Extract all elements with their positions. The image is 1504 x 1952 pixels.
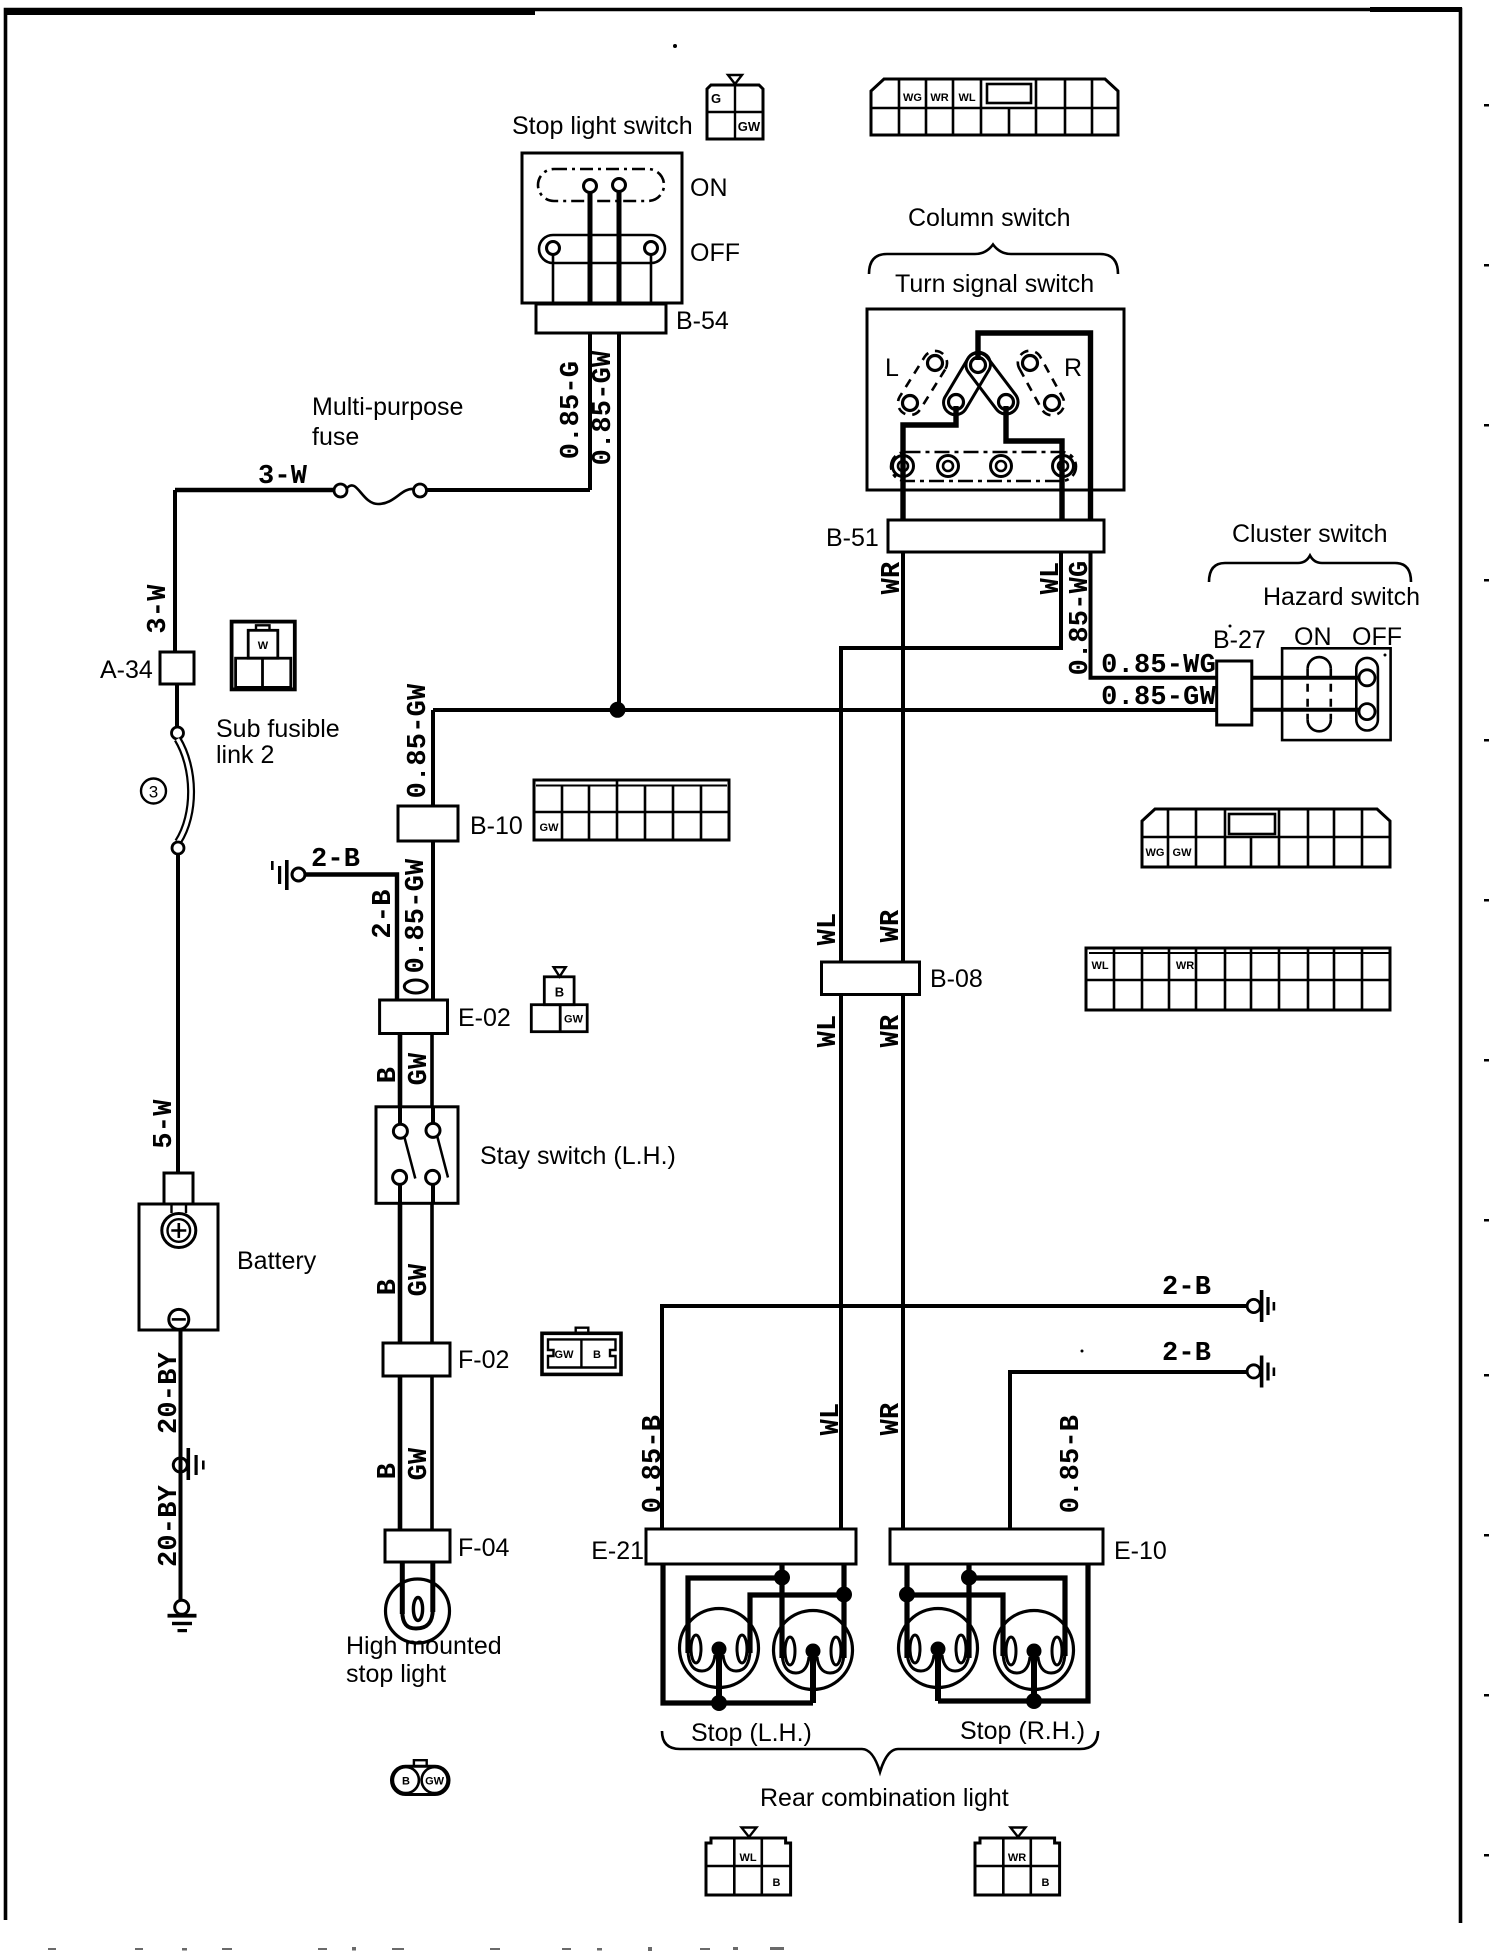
stop bulb LH-2 xyxy=(774,1611,853,1704)
svg-text:E-21: E-21 xyxy=(591,1537,644,1565)
svg-text:Column switch: Column switch xyxy=(908,204,1071,232)
connector symbol (B/GW oval pin view) xyxy=(392,1760,450,1794)
wire GW from E-02 to stay switch xyxy=(430,1033,434,1108)
connector symbol (G/GW pin view) at top xyxy=(707,75,763,139)
svg-text:0.85-WG: 0.85-WG xyxy=(1066,561,1096,676)
fixed contact row oval (dash-dot) xyxy=(891,452,1076,481)
pin circle outer-right xyxy=(1023,356,1038,371)
svg-text:WR: WR xyxy=(877,1402,907,1435)
ground (body) on 20-BY wire xyxy=(173,1448,204,1480)
ON pin circle right xyxy=(613,179,626,192)
svg-text:2-B: 2-B xyxy=(369,889,399,938)
fixed contact ring 1 xyxy=(893,456,914,477)
battery terminal connector box xyxy=(164,1173,193,1204)
svg-text:High mounted: High mounted xyxy=(346,1632,502,1660)
wire 3-W horizontal right part to 0.85-G xyxy=(427,488,591,492)
dashed alternate position right xyxy=(1018,351,1064,416)
pin circle center-left xyxy=(949,395,964,410)
wire thick from rotor pivot to B-51 xyxy=(978,333,1091,522)
svg-text:B: B xyxy=(593,1349,601,1361)
fixed contact ring 3 xyxy=(991,456,1012,477)
svg-text:link 2: link 2 xyxy=(216,741,274,769)
svg-text:WL: WL xyxy=(1037,562,1067,595)
svg-text:Multi-purpose: Multi-purpose xyxy=(312,393,463,421)
dashed alternate position left xyxy=(898,351,947,415)
scan speck dots xyxy=(673,44,1387,1353)
fixed contact ring 4 xyxy=(1053,456,1074,477)
svg-text:GW: GW xyxy=(405,1052,435,1085)
wire junction RH-A to bulb4 left xyxy=(907,1595,1003,1656)
stop bulb LH-1 xyxy=(680,1609,759,1704)
svg-text:5-W: 5-W xyxy=(150,1099,180,1149)
stop light switch box xyxy=(522,153,682,303)
svg-text:GW: GW xyxy=(405,1263,435,1296)
svg-text:2-B: 2-B xyxy=(1162,1273,1211,1303)
multi-purpose fuse element xyxy=(334,484,427,504)
connector symbol (GW/B pin view) beside F-02 xyxy=(542,1328,621,1375)
pin circle center-right xyxy=(999,395,1014,410)
connector E-21 xyxy=(646,1529,856,1564)
junction dot LH-1 xyxy=(774,1570,790,1586)
brace under rear combination light xyxy=(662,1731,1098,1772)
hazard OFF contact stadium xyxy=(1356,658,1378,731)
svg-text:WR: WR xyxy=(930,92,948,104)
svg-text:3-W: 3-W xyxy=(258,462,308,492)
svg-text:GW: GW xyxy=(405,1447,435,1480)
connector F-04 xyxy=(385,1530,450,1562)
battery plus terminal xyxy=(162,1204,196,1248)
LH middle pin wire to junction xyxy=(779,1564,784,1658)
svg-text:E-10: E-10 xyxy=(1114,1537,1167,1565)
svg-text:GW: GW xyxy=(564,1014,584,1026)
ground terminal 2-B lower xyxy=(1247,1356,1275,1388)
battery minus terminal xyxy=(169,1309,189,1329)
svg-text:GW: GW xyxy=(425,1776,445,1788)
svg-text:WR: WR xyxy=(1008,1852,1026,1864)
LH right pin wire to junction xyxy=(841,1564,846,1658)
wire 3-W vertical xyxy=(173,490,177,652)
svg-text:0.85-G: 0.85-G xyxy=(557,361,587,459)
svg-text:Rear combination light: Rear combination light xyxy=(760,1784,1009,1812)
wire OFF-left pin stub xyxy=(552,255,555,307)
svg-text:F-04: F-04 xyxy=(458,1534,510,1562)
wire ON-left pin down xyxy=(588,193,593,307)
stop bulb RH-1 xyxy=(899,1609,978,1702)
wire 2-B upper with ground xyxy=(662,1306,1247,1531)
connector F-02 xyxy=(383,1343,450,1376)
wire B stay switch to F-02 xyxy=(398,1203,403,1345)
connector pin-grid view middle right (WG GW) xyxy=(1142,809,1390,867)
svg-text:WR: WR xyxy=(877,1014,907,1047)
pin circle lower-left xyxy=(903,396,918,411)
turn signal switch box xyxy=(867,309,1124,490)
brace over hazard switch xyxy=(1209,556,1411,583)
wire 0.85-WG from B-51 to B-27 xyxy=(1091,552,1219,678)
stay switch box xyxy=(376,1107,458,1204)
wire junction LH-2 to bulb1 right xyxy=(750,1595,844,1653)
svg-text:WG: WG xyxy=(903,92,922,104)
svg-text:Stop (R.H.): Stop (R.H.) xyxy=(960,1717,1085,1745)
wire 3-W horizontal left part xyxy=(175,488,334,492)
svg-text:B-08: B-08 xyxy=(930,965,983,993)
svg-text:B-51: B-51 xyxy=(826,524,879,552)
svg-text:F-02: F-02 xyxy=(458,1346,509,1374)
wire 5-W down to battery xyxy=(176,854,180,1174)
fixed contact ring 2 xyxy=(938,456,959,477)
svg-text:20-BY: 20-BY xyxy=(155,1484,185,1567)
svg-text:Sub fusible: Sub fusible xyxy=(216,715,340,743)
svg-text:ON: ON xyxy=(690,174,728,202)
svg-text:WL: WL xyxy=(958,92,975,104)
connector B-51 xyxy=(888,520,1104,552)
wire OFF-right pin stub xyxy=(650,255,653,307)
connector B-54 xyxy=(536,304,666,333)
svg-text:20-BY: 20-BY xyxy=(155,1351,185,1434)
svg-text:Stop (L.H.): Stop (L.H.) xyxy=(691,1719,812,1747)
junction dot RH-B xyxy=(961,1570,977,1586)
connector A-34 xyxy=(160,652,194,684)
wire B from E-02 to stay switch xyxy=(398,1033,403,1108)
rotor contact pick right xyxy=(966,353,1018,414)
battery box xyxy=(139,1204,218,1330)
hazard OFF pin circle top xyxy=(1359,670,1375,686)
sub fusible link symbol xyxy=(232,622,295,690)
hazard OFF pin circle bottom xyxy=(1359,704,1375,720)
svg-text:B: B xyxy=(374,1463,404,1479)
junction dot RH bottom xyxy=(1026,1693,1042,1709)
OFF pin circle right xyxy=(645,242,658,255)
ON pin circle left xyxy=(584,180,597,193)
junction dot LH bottom xyxy=(711,1695,727,1711)
wire from center-right contact to B-51 xyxy=(1006,406,1062,522)
svg-text:Hazard switch: Hazard switch xyxy=(1263,583,1420,611)
svg-text:GW: GW xyxy=(540,822,560,834)
ON contact oval (dash-dot) xyxy=(538,169,664,201)
svg-text:GW: GW xyxy=(555,1349,575,1361)
OFF pin circle left xyxy=(547,242,560,255)
rotor contact pick left xyxy=(944,352,991,414)
junction dot RH-A xyxy=(899,1587,915,1603)
svg-text:Battery: Battery xyxy=(237,1247,317,1275)
wire 0.85-GW from B-10 to E-02 xyxy=(431,841,435,1002)
OFF contact oval xyxy=(539,235,665,263)
wire junction LH-1 to bulb1 left xyxy=(688,1578,782,1653)
hazard ON contact stadium (dashed) xyxy=(1308,657,1331,731)
RH left pin wire to junction xyxy=(904,1564,909,1658)
svg-text:WL: WL xyxy=(739,1852,756,1864)
svg-text:0.85-WG: 0.85-WG xyxy=(1101,651,1216,681)
svg-text:3: 3 xyxy=(149,783,158,802)
connector symbol bottom right (WR/B) xyxy=(975,1828,1060,1896)
wire GW F-02 to F-04 xyxy=(430,1376,434,1532)
stop bulb RH-2 xyxy=(995,1611,1074,1702)
wire B F-02 to F-04 xyxy=(398,1376,403,1532)
faded caption row at page bottom xyxy=(48,1947,784,1951)
ground terminal 2-B upper xyxy=(1247,1290,1275,1322)
connector symbol bottom left (WL/B) xyxy=(706,1828,791,1896)
wire ON-right pin down xyxy=(617,192,622,307)
LH ground pin wire and bottom run xyxy=(663,1564,813,1703)
wire 0.85-GW long horizontal to B-27 xyxy=(433,708,1218,712)
connector pin-grid view lower right (WL WR) xyxy=(1086,948,1390,1010)
svg-text:R: R xyxy=(1064,354,1082,382)
svg-text:WG: WG xyxy=(1146,847,1165,859)
connector pin-grid view beside B-10 (GW) xyxy=(534,780,729,840)
svg-text:WR: WR xyxy=(878,561,908,594)
svg-text:2-B: 2-B xyxy=(1162,1339,1211,1369)
RH ground pin wire and bottom run xyxy=(938,1564,1088,1701)
wire WL from B-51 jog to B-08 xyxy=(841,552,1061,1531)
connector B-08 xyxy=(822,962,920,995)
svg-text:Cluster switch: Cluster switch xyxy=(1232,520,1388,548)
svg-text:Turn signal switch: Turn signal switch xyxy=(895,270,1094,298)
svg-text:OFF: OFF xyxy=(1352,623,1402,651)
right margin tick marks xyxy=(1484,104,1489,1857)
connector B-27 xyxy=(1217,661,1252,725)
svg-text:0.85-GW: 0.85-GW xyxy=(404,683,434,798)
svg-text:G: G xyxy=(711,91,721,106)
svg-text:WR: WR xyxy=(1176,960,1194,972)
connector symbol (B/GW pin view) beside E-02 xyxy=(531,967,587,1031)
svg-text:Stop light switch: Stop light switch xyxy=(512,112,693,140)
hazard switch box xyxy=(1282,648,1391,740)
connector E-10 xyxy=(890,1529,1103,1564)
svg-text:B: B xyxy=(402,1776,410,1788)
svg-text:B: B xyxy=(374,1279,404,1295)
svg-text:3-W: 3-W xyxy=(144,584,174,634)
connector B-10 xyxy=(398,806,458,841)
wire 0.85-GW from B-54 down to junction xyxy=(617,333,621,710)
svg-text:GW: GW xyxy=(738,119,761,134)
wire 2-B to E-02 xyxy=(305,875,397,1003)
ground terminal at end of 20-BY xyxy=(168,1600,197,1632)
ground terminal for 2-B wire xyxy=(271,860,305,890)
RH middle pin wire to junction xyxy=(966,1564,971,1658)
svg-text:B-54: B-54 xyxy=(676,307,729,335)
junction dot LH-2 xyxy=(836,1587,852,1603)
pin circle lower-right xyxy=(1045,396,1060,411)
wire below A-34 xyxy=(175,684,179,727)
svg-text:L: L xyxy=(885,354,899,382)
fusible link terminal circle top xyxy=(172,727,184,739)
svg-text:ON: ON xyxy=(1294,623,1332,651)
wire GW stay switch to F-02 xyxy=(430,1203,434,1345)
high mounted stop light bulb xyxy=(386,1562,450,1643)
connector E-02 xyxy=(380,1000,448,1034)
wire 2-B lower with ground xyxy=(1010,1372,1247,1531)
svg-text:A-34: A-34 xyxy=(100,656,153,684)
svg-text:WL: WL xyxy=(814,913,844,946)
wire 0.85-GW from junction to B-10 xyxy=(431,710,435,808)
svg-text:0.85-GW: 0.85-GW xyxy=(402,858,432,973)
pin circle pivot xyxy=(971,358,986,373)
pin circle outer-left xyxy=(928,356,943,371)
fusible link terminal circle bottom xyxy=(172,842,184,854)
svg-text:E-02: E-02 xyxy=(458,1004,511,1032)
svg-text:B: B xyxy=(555,985,564,1000)
wire from center-left contact to B-51 xyxy=(903,406,956,522)
wire B-27 to hazard ON contact xyxy=(1252,676,1359,680)
svg-text:B: B xyxy=(773,1877,781,1889)
circled numeral 3 xyxy=(141,779,166,804)
svg-text:WL: WL xyxy=(1091,960,1108,972)
brace over turn signal switch xyxy=(869,245,1118,275)
svg-text:fuse: fuse xyxy=(312,423,359,451)
svg-text:0.85-GW: 0.85-GW xyxy=(589,350,619,465)
svg-text:B: B xyxy=(374,1067,404,1083)
svg-text:0.85-B: 0.85-B xyxy=(639,1415,669,1513)
svg-text:0.85-B: 0.85-B xyxy=(1057,1415,1087,1513)
connector pin-grid view top right (WG WR WL) xyxy=(871,79,1118,135)
junction dot 0.85-GW xyxy=(610,702,626,718)
svg-text:B: B xyxy=(1042,1877,1050,1889)
svg-text:OFF: OFF xyxy=(690,239,740,267)
wire WR from B-51 to E-10 xyxy=(901,552,905,1531)
fusible link curved element xyxy=(178,739,192,842)
wire junction RH-B to bulb4 right xyxy=(969,1578,1065,1656)
grommet oval above E-02 xyxy=(404,980,427,993)
svg-text:WL: WL xyxy=(814,1015,844,1048)
svg-text:B-27: B-27 xyxy=(1213,626,1266,654)
svg-text:WL: WL xyxy=(817,1403,847,1436)
svg-text:WR: WR xyxy=(877,909,907,942)
svg-text:stop light: stop light xyxy=(346,1660,446,1688)
svg-text:Stay switch (L.H.): Stay switch (L.H.) xyxy=(480,1142,676,1170)
wire 0.85-G from B-54 down to fuse line xyxy=(588,333,592,490)
svg-text:2-B: 2-B xyxy=(311,845,360,875)
wire B-27 to hazard OFF contact xyxy=(1252,708,1359,712)
wire 20-BY below battery xyxy=(179,1330,183,1601)
svg-text:W: W xyxy=(258,640,269,652)
svg-text:GW: GW xyxy=(1173,847,1193,859)
svg-text:B-10: B-10 xyxy=(470,812,523,840)
stay switch pins and blades xyxy=(393,1106,448,1204)
